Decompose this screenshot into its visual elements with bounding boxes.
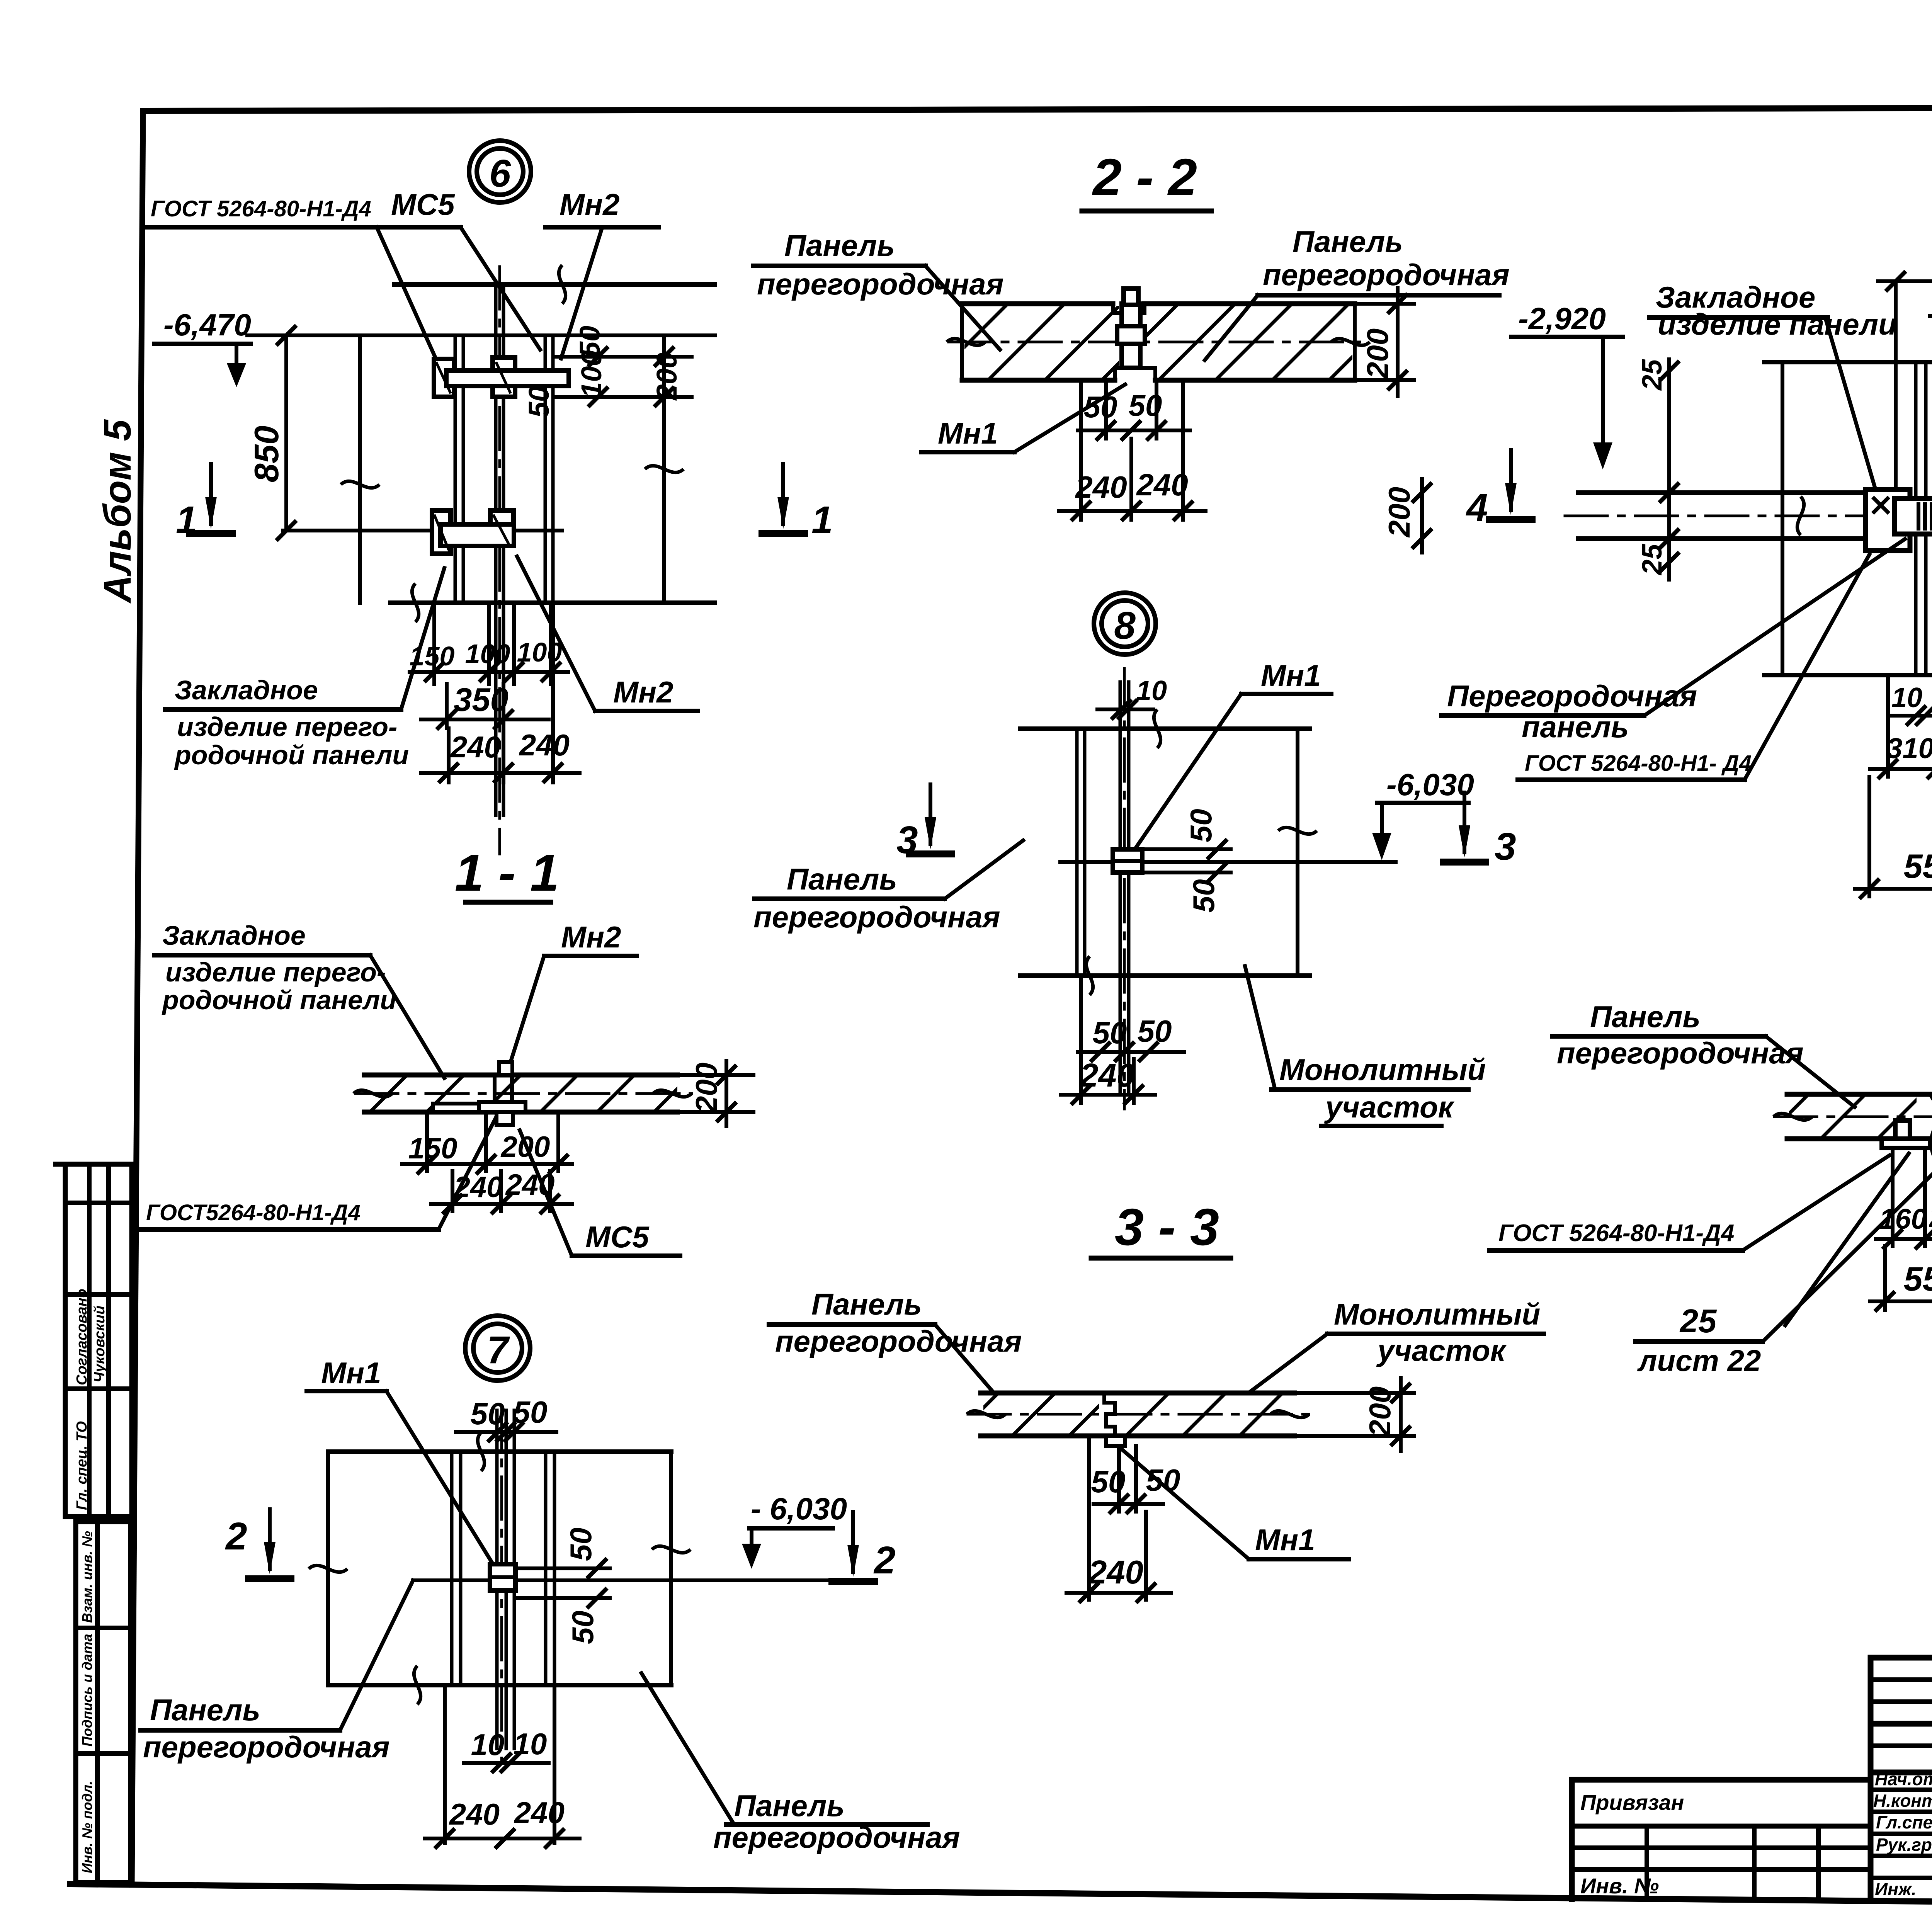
joint connector [1113,849,1142,872]
svg-text:Панель: Панель [1590,1000,1701,1034]
leader wire [1014,384,1125,452]
elevation -6,030 [1372,767,1474,860]
label panel partition [753,862,1000,934]
joint connector [490,1564,515,1590]
leader wire [1745,554,1869,780]
border top [143,107,1932,111]
left wall horizontals [1565,493,1870,539]
svg-text:Мн2: Мн2 [561,920,621,954]
bottom edge line [390,583,715,622]
svg-text:-2,920: -2,920 [1518,301,1606,336]
dim 50/50 bottom [1078,1014,1184,1062]
dim 10/10 top [1930,282,1932,326]
section mark 1 left [176,462,236,542]
dim 50/50 [1089,1436,1180,1600]
grid verticals [1572,1658,1932,1899]
svg-text:перегородочная: перегородочная [757,267,1004,301]
svg-text:МС5: МС5 [585,1220,650,1254]
leader wire [1644,539,1905,716]
svg-text:240: 240 [1088,1554,1143,1591]
leader wire [507,956,544,1073]
section mark 2 right [828,1510,896,1582]
dim row 350 [421,682,549,782]
label MC5 [363,187,461,227]
left stamp strip upper [56,1164,132,1517]
dim 550/550 [1855,777,1932,899]
svg-text:- 6,030: - 6,030 [751,1492,847,1526]
leader wire [561,228,602,359]
leader wire [935,1325,992,1391]
dim 50/50 right of joint [1142,809,1231,913]
label monolithic section [1271,1053,1486,1126]
svg-text:200: 200 [689,1063,723,1114]
leader wire [1763,1171,1932,1342]
svg-text:Мн2: Мн2 [560,187,619,221]
svg-text:3: 3 [1495,825,1516,868]
label Mn1 [1241,658,1331,694]
leader wire [945,840,1023,899]
svg-text:50: 50 [471,1396,505,1431]
svg-text:850: 850 [247,426,286,483]
node 6 [147,141,833,854]
left break line [309,1452,347,1685]
leader wire [1121,1448,1249,1559]
panel wall lines [452,1406,554,1762]
leader wire [401,568,444,709]
leader wire [925,266,1000,350]
svg-text:25: 25 [1679,1303,1717,1340]
label Mn1 [307,1356,386,1391]
svg-text:Мн2: Мн2 [613,675,673,709]
label monolithic section [1327,1297,1544,1367]
label Mn2 bottom [595,675,697,711]
svg-text:100: 100 [575,350,607,398]
node 7 [141,1316,960,1854]
label panel partition right [713,1789,960,1854]
svg-text:изделие панели: изделие панели [1658,307,1897,341]
leader wire [1133,694,1241,852]
elevation -2,920 [1512,301,1623,469]
svg-text:50: 50 [1129,388,1162,422]
leader wire [641,1673,734,1825]
svg-text:240: 240 [449,1797,500,1831]
svg-text:Инж.: Инж. [1875,1879,1917,1899]
welded assembly [1866,490,1932,551]
dim 10/10 below [445,1685,554,1843]
svg-text:150: 150 [408,1132,457,1165]
svg-text:240: 240 [519,728,570,762]
section mark 4 left [1466,448,1536,529]
label panel partition left [141,1693,390,1764]
dim 50/100/50/200 right of top joint [523,326,692,603]
svg-text:550: 550 [1904,1260,1932,1298]
svg-text:240: 240 [514,1796,565,1830]
dim 310/240/240/310 [1870,675,1932,779]
title 2-2 [1082,148,1211,211]
bottom edge line [1764,656,1932,694]
dim row 150/200 [402,1112,572,1174]
leader wire [439,1119,495,1230]
border left [132,111,143,1885]
leader wire [377,227,447,384]
svg-text:Нач.отд: Нач.отд [1875,1769,1932,1789]
label panel partition left [1553,1000,1804,1070]
svg-text:Панель: Панель [811,1287,922,1321]
svg-text:1: 1 [176,498,197,542]
svg-text:1 - 1: 1 - 1 [455,844,559,902]
svg-text:240: 240 [450,730,501,764]
panel band [354,1075,692,1112]
section 4-4 [1490,923,1932,1378]
svg-text:4: 4 [1466,486,1488,529]
svg-text:Мн1: Мн1 [321,1356,381,1390]
svg-text:6: 6 [489,152,511,195]
leader wire [370,955,444,1078]
dim 550/550 [1870,1246,1932,1311]
label 25 sheet 22 [1635,1303,1763,1378]
svg-text:Мн1: Мн1 [1255,1523,1315,1557]
dim 800 [1878,245,1932,291]
title 1-1 [455,844,559,902]
leader wire [1766,1036,1855,1107]
dim 240 [1066,1512,1171,1603]
dim 850 [247,325,296,541]
left stamp strip lower [76,1522,131,1883]
node 9 [1382,161,1932,899]
svg-text:изделие перего-: изделие перего- [165,957,386,987]
svg-text:350: 350 [454,682,509,718]
svg-text:200: 200 [651,352,683,401]
panel wall lines [455,267,553,854]
dim 240 [1061,976,1155,1105]
svg-text:50: 50 [564,1527,598,1561]
panel band [967,1393,1310,1446]
dim 50/50 right of joint [515,1527,610,1644]
T connector [1882,1103,1932,1175]
svg-text:Рук.гр.: Рук.гр. [1876,1835,1932,1855]
label GOST 5264-80-N1-D4 [139,1200,439,1230]
svg-text:240: 240 [1929,1201,1932,1233]
label Mn2 top [546,187,659,227]
svg-text:100: 100 [465,639,510,669]
panel band [947,304,1370,380]
leader wire [520,1130,572,1256]
svg-text:Альбом 5: Альбом 5 [96,419,139,604]
svg-text:панель: панель [1522,710,1629,744]
label embedded item of partition panel [165,675,409,770]
label embedded item left [1649,280,1897,341]
title 3-3 [1091,1198,1231,1258]
label panel partition right [1258,224,1510,295]
svg-text:2 - 2: 2 - 2 [1092,148,1197,206]
leader wire [461,227,540,350]
svg-text:лист 22: лист 22 [1637,1344,1761,1378]
svg-text:Монолитный: Монолитный [1279,1053,1486,1087]
svg-text:перегородочная: перегородочная [143,1730,390,1764]
svg-text:Закладное: Закладное [175,675,318,705]
right break line [1278,729,1317,976]
svg-text:Мн1: Мн1 [1261,658,1321,692]
section mark 3 right [1440,791,1516,868]
svg-text:ГОСТ5264-80-Н1-Д4: ГОСТ5264-80-Н1-Д4 [146,1200,361,1225]
label Mn1 [922,416,1014,452]
svg-text:изделие перего-: изделие перего- [177,712,397,742]
leader wire [517,556,595,711]
label Mn2 [544,920,637,956]
dim 160/240/240/160 [1876,1150,1932,1249]
top edge line [1020,709,1310,748]
label GOST 5264-80-N1-D4 [147,196,377,227]
svg-text:Перегородочная: Перегородочная [1447,679,1697,713]
dim 10/10 below [1891,682,1932,726]
leader wire [386,1391,495,1568]
label panel partition left [753,228,1004,301]
svg-text:100: 100 [517,637,562,667]
node 8 [753,593,1516,1126]
svg-text:50: 50 [523,386,555,418]
svg-text:МС5: МС5 [391,187,455,221]
border bottom [70,1884,1932,1909]
bottom edge line [328,1666,671,1704]
svg-text:3: 3 [896,818,918,862]
svg-text:Инв. № подл.: Инв. № подл. [79,1781,95,1873]
leader wire [1743,1155,1889,1250]
title block [1572,1658,1932,1932]
label GOST 5264-80-N1-D4 [1518,751,1752,780]
top edge line [328,1432,671,1471]
svg-text:310: 310 [1886,732,1932,764]
weld joint bottom [432,510,514,554]
svg-text:10: 10 [1136,675,1167,706]
svg-text:Панель: Панель [1293,224,1403,259]
svg-text:Панель: Панель [784,228,895,262]
leader wire [1205,295,1258,360]
node 6 circle [469,141,531,202]
weld joint top [434,357,569,397]
elevation -6,470 [155,308,251,387]
svg-text:Взам. инв. №: Взам. инв. № [79,1531,95,1623]
dim 200 right [677,1061,753,1126]
joint zigzag [1104,1393,1115,1436]
svg-text:10: 10 [1891,682,1922,713]
svg-text:8: 8 [1114,604,1136,647]
svg-text:50: 50 [513,1395,548,1429]
dim 200 right [1294,1378,1414,1451]
svg-text:2: 2 [873,1539,896,1582]
label panel partition [769,1287,1022,1358]
svg-text:50: 50 [1184,809,1218,842]
svg-text:ГОСТ 5264-80-Н1-Д4: ГОСТ 5264-80-Н1-Д4 [1498,1220,1734,1247]
right break line [652,1452,690,1685]
svg-text:50: 50 [1146,1463,1180,1497]
svg-text:50: 50 [566,1611,600,1644]
centre line [413,1578,829,1582]
svg-text:50: 50 [1187,879,1221,913]
svg-text:-6,030: -6,030 [1386,767,1474,802]
dim row 150/100/100 [410,603,568,684]
dim 200 right [1355,288,1414,396]
svg-text:550: 550 [1904,847,1932,885]
label embedded item of partition panel [155,920,396,1015]
joint detail [433,1062,526,1125]
dim row 240/240 [431,1168,572,1214]
label GOST 5264-80-N1-D4 [1490,1220,1743,1250]
section 1-1 [139,844,753,1256]
svg-text:родочной панели: родочной панели [162,985,396,1015]
panel band [1774,1094,1932,1139]
leader wire crossing [1785,1153,1909,1325]
svg-text:ГОСТ 5264-80-Н1-Д4: ГОСТ 5264-80-Н1-Д4 [151,196,371,221]
top edge line [1764,343,1932,381]
svg-text:участок: участок [1376,1333,1507,1367]
svg-text:Гл.спец.: Гл.спец. [1876,1812,1932,1832]
centre line [1060,860,1396,864]
section mark 1 right [759,462,833,542]
svg-text:Мн1: Мн1 [938,416,998,450]
section 2-2 [753,148,1510,521]
svg-text:Гл. спец. ТО: Гл. спец. ТО [74,1421,90,1510]
svg-text:240: 240 [1079,1057,1135,1094]
dim 50/50 top [456,1395,556,1442]
dim 240/240 [425,1796,580,1849]
dim ext verticals [1782,281,1932,675]
svg-text:Панель: Панель [787,862,897,896]
svg-text:200: 200 [1363,1386,1397,1437]
roles and names [1873,1769,1932,1900]
svg-text:2: 2 [225,1515,247,1558]
label partition panel left [1441,679,1697,744]
label MC5 [572,1220,680,1256]
svg-text:7: 7 [487,1328,510,1372]
svg-text:200: 200 [1382,487,1416,538]
panel wall lines vertical [1916,270,1932,796]
svg-text:Подпись и дата: Подпись и дата [79,1634,95,1747]
node 7 circle [465,1316,530,1381]
top edge line [394,282,715,287]
svg-text:50: 50 [1091,1464,1126,1499]
bottom edge line [1020,956,1310,995]
svg-text:перегородочная: перегородочная [1557,1036,1804,1070]
section 3-3 [769,1198,1544,1603]
svg-text:Согласовано: Согласовано [74,1289,90,1385]
leader wire [1245,966,1275,1090]
dim 50/50 [1078,380,1190,440]
svg-text:Инв. №: Инв. № [1580,1874,1659,1898]
leader wire [340,1580,413,1730]
svg-text:-6,470: -6,470 [163,308,251,342]
grid horizontals [1572,1658,1932,1878]
elevation -6,030 [742,1492,847,1569]
svg-text:Монолитный: Монолитный [1334,1297,1540,1331]
svg-text:240: 240 [1136,468,1188,502]
svg-text:3 - 3: 3 - 3 [1115,1198,1219,1256]
joint bolt [1117,289,1145,368]
dim 240/240 [1059,380,1206,521]
svg-text:перегородочная: перегородочная [1263,258,1510,292]
svg-text:200: 200 [1361,328,1395,379]
centre line [283,529,562,532]
svg-text:10: 10 [471,1728,505,1762]
svg-text:1: 1 [811,498,833,542]
wall break line [341,335,379,603]
section mark 3 left [896,782,955,862]
node 8 circle [1094,593,1156,655]
leader wire [1826,319,1879,500]
svg-text:перегородочная: перегородочная [753,900,1000,934]
svg-text:Закладное: Закладное [162,920,306,951]
svg-text:Привязан: Привязан [1580,1790,1684,1815]
leader wire [1250,1334,1327,1392]
section mark 2 left [225,1507,294,1579]
panel wall lines [1077,668,1129,1109]
svg-text:родочной панели: родочной панели [174,740,409,770]
svg-text:50: 50 [1084,390,1117,424]
svg-text:ГОСТ 5264-80-Н1- Д4: ГОСТ 5264-80-Н1- Д4 [1525,751,1752,776]
svg-text:Панель: Панель [734,1789,845,1823]
svg-text:перегородочная: перегородочная [775,1324,1022,1358]
top horizontal line [247,333,715,337]
svg-text:240: 240 [1075,470,1127,504]
svg-text:Н.контр.: Н.контр. [1873,1791,1932,1811]
svg-text:Панель: Панель [150,1693,260,1727]
label Mn1 [1249,1523,1349,1559]
svg-text:участок: участок [1324,1090,1455,1124]
dim 10 top [1097,675,1167,719]
dim row 240/240 [421,603,580,783]
svg-text:Чуковский: Чуковский [92,1306,108,1383]
dim 25/200/25 left stack [1382,359,1679,580]
